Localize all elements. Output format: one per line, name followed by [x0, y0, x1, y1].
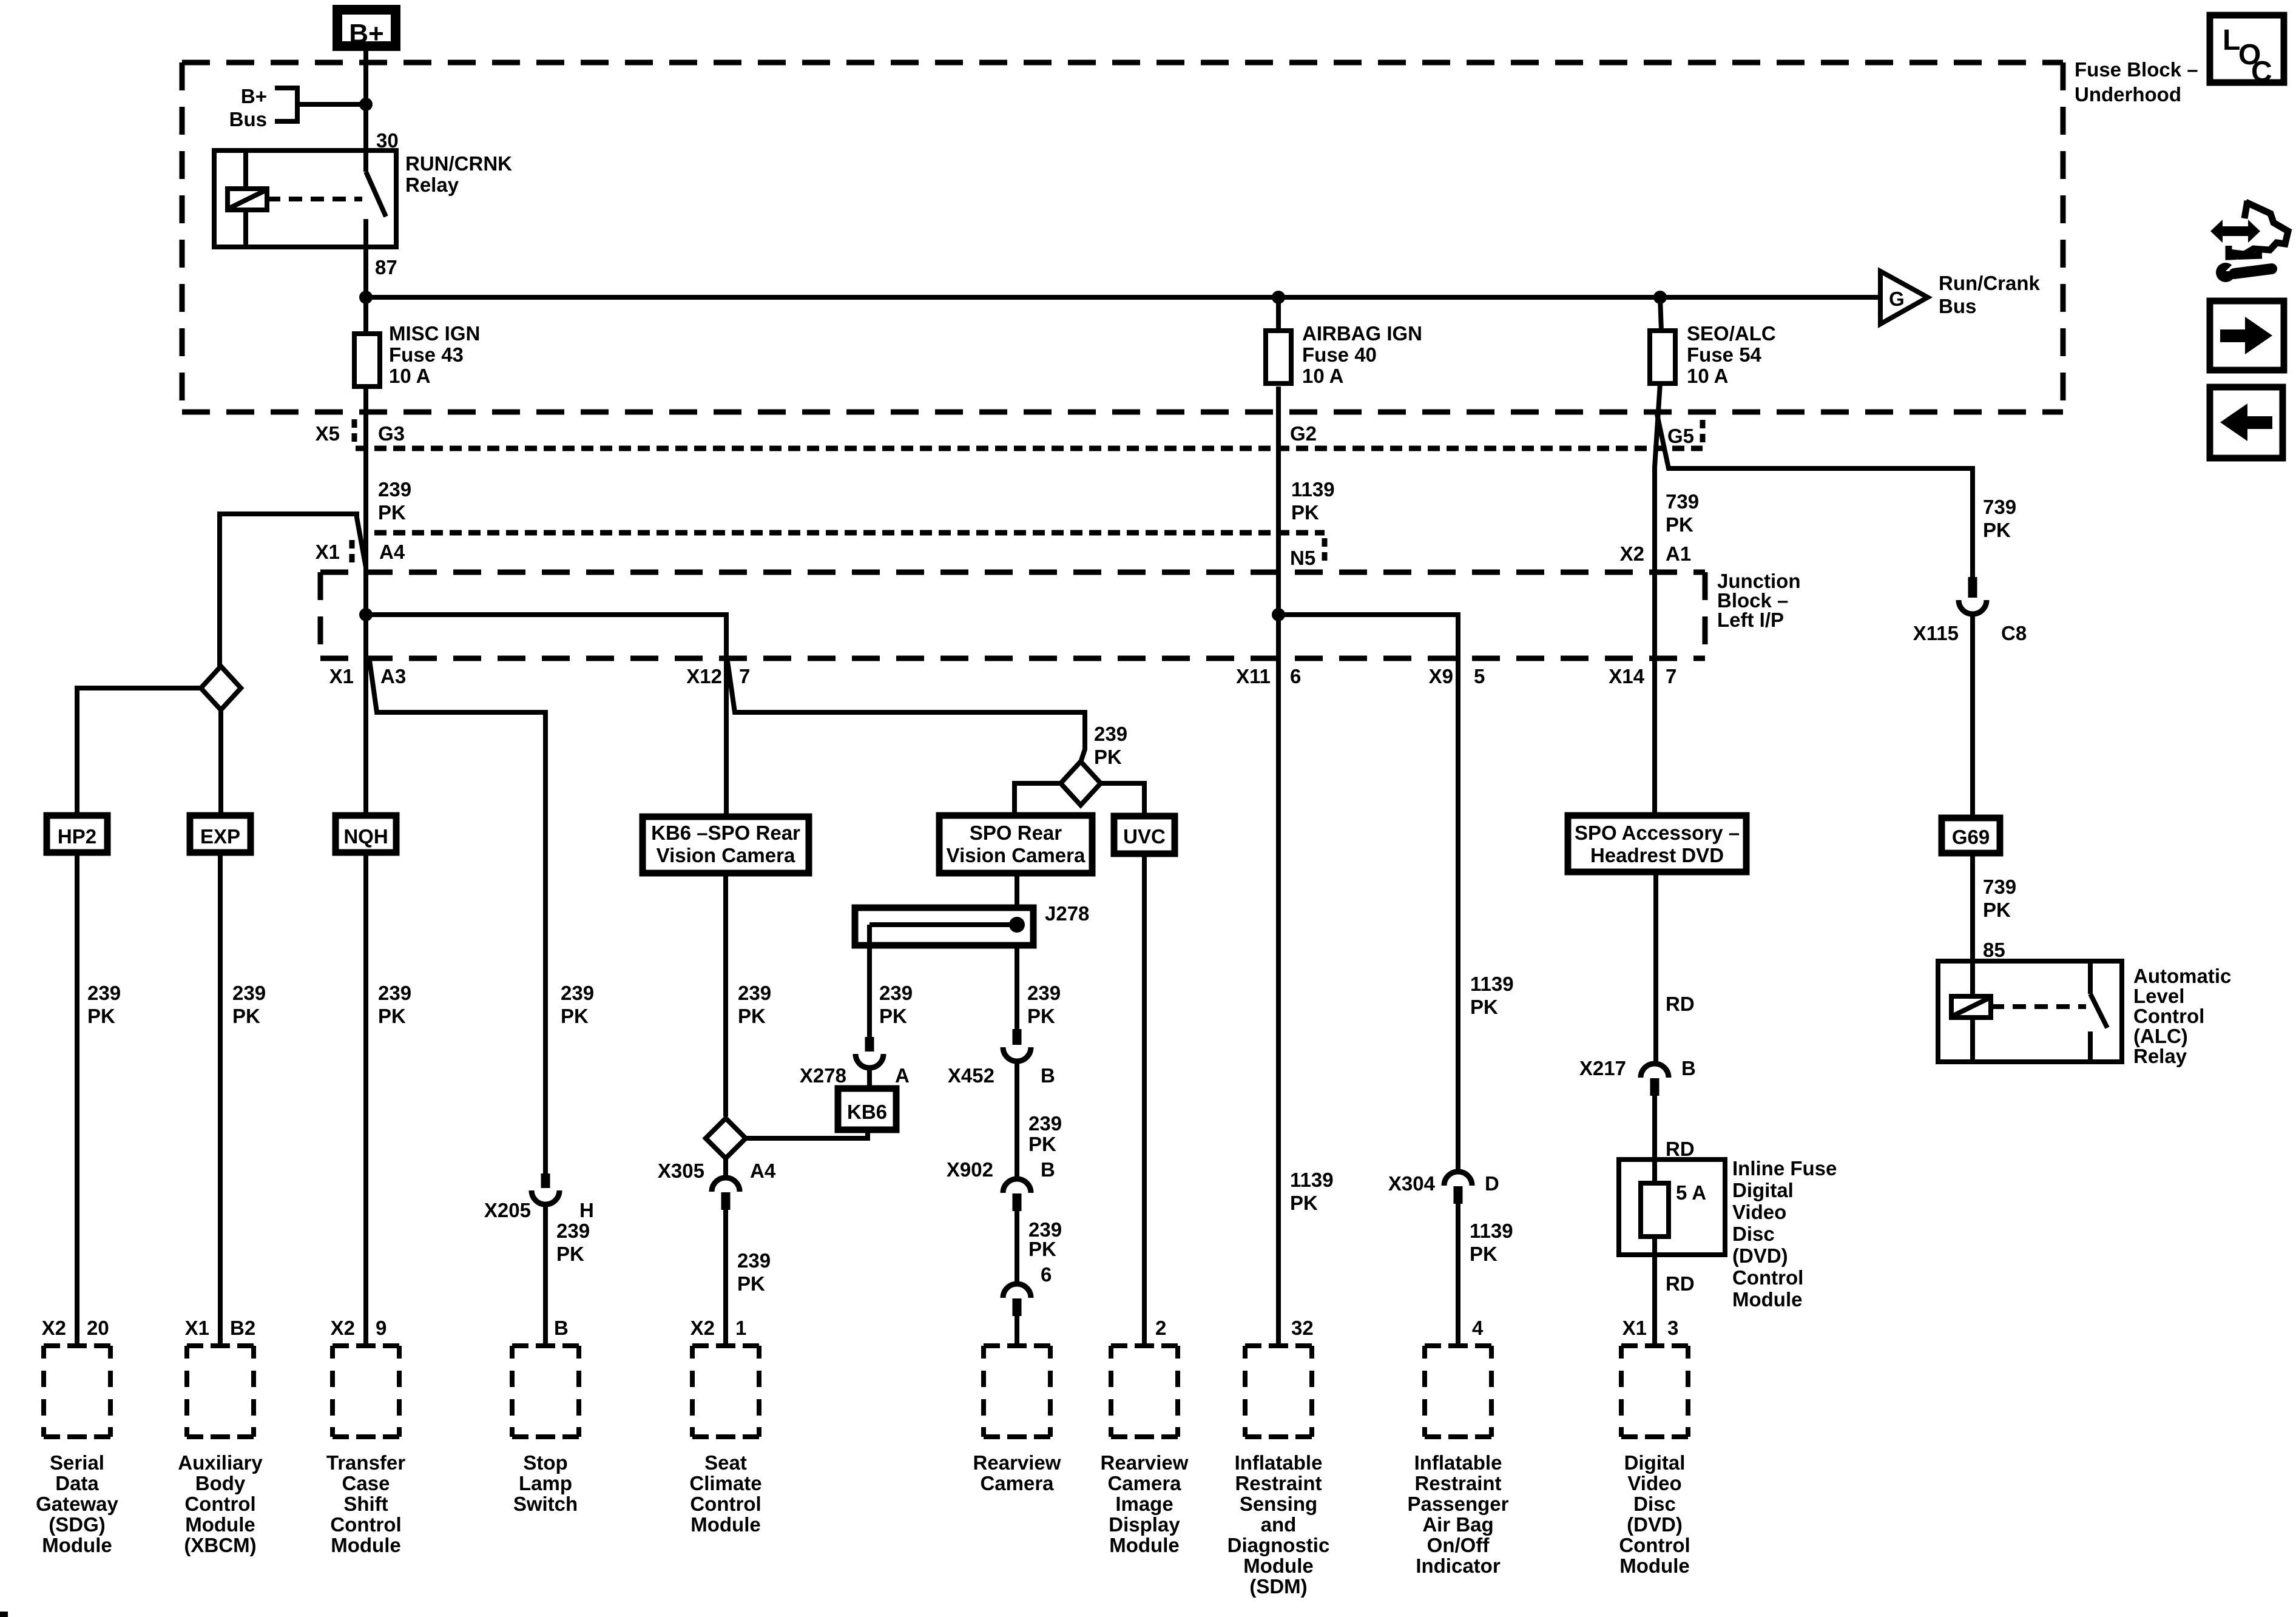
wire label 239 PK (seat lower)	[737, 1249, 771, 1295]
svg-text:Fuse Block –: Fuse Block –	[2075, 58, 2198, 81]
svg-text:Display: Display	[1109, 1513, 1180, 1536]
wire X902 to pin 6 connector	[1015, 1210, 1019, 1284]
wire diamond to HP2	[77, 688, 201, 815]
svg-text:PK: PK	[1028, 1133, 1056, 1155]
svg-text:X1: X1	[185, 1317, 209, 1339]
wire diamond to UVC box	[1101, 783, 1144, 816]
connector X9/5 labels	[1429, 665, 1485, 687]
wire label 739 PK (fuse 54 output)	[1666, 490, 1699, 536]
svg-text:5: 5	[1474, 665, 1485, 687]
option box HP2	[47, 815, 107, 852]
svg-text:Video: Video	[1627, 1472, 1681, 1494]
connector B label (stop lamp)	[554, 1317, 569, 1339]
connector X14/7 labels	[1609, 665, 1676, 687]
svg-text:J278: J278	[1045, 902, 1089, 925]
svg-text:Inflatable: Inflatable	[1414, 1451, 1502, 1474]
svg-text:10 A: 10 A	[389, 365, 430, 387]
svg-text:Passenger: Passenger	[1408, 1493, 1509, 1515]
connector row G3/G2/G5 dotted line	[356, 446, 1703, 451]
svg-text:L: L	[2223, 24, 2240, 56]
svg-text:Restraint: Restraint	[1235, 1472, 1322, 1494]
svg-text:239: 239	[87, 982, 121, 1004]
wire KB6 box to diamond	[723, 873, 728, 1116]
svg-text:Indicator: Indicator	[1416, 1555, 1501, 1577]
wire label 239 PK (fuse 43 output)	[378, 478, 411, 524]
svg-text:PK: PK	[1027, 1005, 1055, 1027]
wire branch X12-7 to rear camera diamond	[728, 661, 1085, 762]
connector X115/C8	[1913, 577, 2027, 644]
svg-text:PK: PK	[879, 1005, 907, 1027]
svg-text:G69: G69	[1952, 826, 1990, 848]
svg-text:SEO/ALC: SEO/ALC	[1687, 322, 1776, 345]
svg-text:G: G	[1889, 288, 1905, 310]
svg-text:PK: PK	[1291, 501, 1319, 524]
svg-text:RD: RD	[1666, 993, 1695, 1015]
wire junction branch to X12-7	[366, 615, 726, 661]
svg-text:Disc: Disc	[1633, 1493, 1676, 1515]
option box NQH	[336, 815, 396, 852]
wire label 239 PK (NQH)	[378, 982, 411, 1027]
svg-text:B+: B+	[349, 19, 383, 49]
svg-text:PK: PK	[232, 1005, 260, 1027]
svg-text:Camera: Camera	[1107, 1472, 1181, 1494]
wire pin 6 to rearview camera module	[1015, 1315, 1019, 1346]
svg-text:KB6: KB6	[847, 1101, 887, 1123]
svg-text:X304: X304	[1388, 1172, 1436, 1195]
svg-text:Module: Module	[331, 1534, 400, 1556]
relay RUN/CRNK - pin 30 label	[376, 129, 399, 152]
wire UVC to rearview image display module	[1142, 854, 1147, 1346]
module Stop Lamp Switch	[512, 1346, 579, 1515]
svg-text:Bus: Bus	[1939, 295, 1976, 317]
svg-text:Module: Module	[1109, 1534, 1179, 1556]
wire diamond to SPO camera box	[1015, 783, 1061, 815]
svg-text:D: D	[1485, 1172, 1499, 1195]
wire label RD (upper)	[1666, 993, 1695, 1015]
svg-text:5 A: 5 A	[1676, 1181, 1706, 1204]
svg-text:X14: X14	[1609, 665, 1644, 687]
option box KB6 - SPO Rear Vision Camera	[643, 817, 809, 873]
connector X1/A4 bracket and labels	[316, 540, 405, 567]
connector X5 bracket and label	[316, 419, 405, 445]
svg-text:239: 239	[378, 478, 411, 501]
svg-text:A4: A4	[750, 1160, 776, 1182]
svg-text:KB6 –SPO Rear: KB6 –SPO Rear	[651, 822, 800, 844]
svg-text:Shift: Shift	[343, 1493, 388, 1515]
svg-text:G5: G5	[1667, 425, 1694, 447]
wire label 239 PK (camera lower)	[1028, 1218, 1062, 1260]
connector X2/1 labels (seat)	[690, 1317, 747, 1339]
svg-text:Video: Video	[1732, 1201, 1786, 1223]
relay ALC - pin 85 label	[1983, 939, 2005, 961]
svg-text:X115: X115	[1913, 622, 1959, 644]
icon LOC box	[2210, 15, 2284, 88]
svg-text:X1: X1	[329, 665, 354, 687]
wire relay 87 to bus	[363, 247, 368, 297]
svg-text:C8: C8	[2001, 622, 2027, 644]
wire X11-6 down to SDM	[1276, 615, 1281, 1346]
module Transfer Case Shift Control	[326, 1317, 405, 1556]
wire label 239 PK (camera mid)	[1028, 1112, 1062, 1155]
svg-text:PK: PK	[1028, 1238, 1056, 1260]
svg-text:6: 6	[1290, 665, 1301, 687]
svg-text:B: B	[554, 1317, 569, 1339]
svg-text:X12: X12	[686, 665, 722, 687]
svg-text:1139: 1139	[1470, 973, 1514, 995]
wire X452 to X902	[1015, 1061, 1019, 1179]
svg-text:7: 7	[1666, 665, 1676, 687]
svg-text:Automatic: Automatic	[2133, 965, 2231, 987]
wire label 239 PK (camera feed)	[1094, 723, 1127, 768]
svg-text:Sensing: Sensing	[1240, 1493, 1317, 1515]
svg-text:X205: X205	[484, 1199, 531, 1221]
svg-text:Module: Module	[42, 1534, 112, 1556]
fuse block underhood dashed boundary	[182, 62, 2063, 412]
svg-text:Seat: Seat	[704, 1451, 747, 1474]
svg-text:Fuse 40: Fuse 40	[1302, 343, 1377, 366]
connector 4 label (indicator)	[1472, 1317, 1484, 1339]
svg-text:Control: Control	[1732, 1266, 1803, 1289]
svg-text:Rearview: Rearview	[1101, 1451, 1189, 1474]
fuse 43 MISC IGN	[354, 297, 480, 387]
wire junction branch to X9-5	[1278, 615, 1458, 661]
wire label 1139 PK (indicator)	[1470, 973, 1514, 1018]
svg-text:B: B	[1681, 1057, 1696, 1079]
svg-text:4: 4	[1472, 1317, 1484, 1339]
connector X1/3 labels (DVD)	[1622, 1317, 1679, 1339]
svg-text:RD: RD	[1666, 1138, 1695, 1160]
svg-text:MISC IGN: MISC IGN	[389, 322, 480, 345]
svg-text:X9: X9	[1429, 665, 1453, 687]
svg-text:Digital: Digital	[1732, 1179, 1794, 1201]
svg-text:PK: PK	[1666, 513, 1693, 536]
svg-text:B: B	[1041, 1158, 1055, 1181]
svg-text:Stop: Stop	[523, 1451, 567, 1474]
svg-text:SPO Accessory –: SPO Accessory –	[1575, 822, 1740, 844]
wire diamond to KB6 jumper	[746, 1130, 868, 1138]
svg-text:Disc: Disc	[1732, 1223, 1775, 1245]
inline fuse label	[1732, 1157, 1837, 1311]
wire label 239 PK (HP2)	[87, 982, 121, 1027]
connector X12/7 labels	[686, 665, 750, 687]
svg-text:1: 1	[735, 1317, 746, 1339]
junction block label	[1717, 570, 1801, 631]
svg-text:Module: Module	[690, 1513, 760, 1536]
svg-text:Headrest DVD: Headrest DVD	[1590, 844, 1724, 866]
connector X452/B	[948, 1029, 1055, 1087]
wire label 239 PK (EXP)	[232, 982, 266, 1027]
node diamond splice (rear vision camera feed)	[1061, 761, 1101, 805]
wire X12-7 down to KB6 SPO box	[724, 661, 729, 817]
svg-text:239: 239	[737, 1249, 771, 1272]
svg-text:X305: X305	[658, 1160, 704, 1182]
connector X11/6 labels	[1236, 665, 1301, 687]
svg-text:PK: PK	[87, 1005, 115, 1027]
wire branch X1-A3 to stop lamp switch	[369, 656, 545, 1173]
svg-text:Inline Fuse: Inline Fuse	[1732, 1157, 1837, 1180]
wire label 739 PK (G69 out)	[1983, 876, 2016, 921]
svg-text:239: 239	[561, 982, 594, 1004]
relay RUN/CRNK - name	[405, 152, 512, 196]
module Rearview Camera	[973, 1346, 1061, 1494]
wire X9-5 down to X304	[1456, 661, 1460, 1172]
svg-text:Diagnostic: Diagnostic	[1227, 1534, 1330, 1556]
svg-text:RD: RD	[1666, 1272, 1695, 1295]
power feed B+ terminal	[337, 10, 396, 49]
svg-text:PK: PK	[1470, 996, 1498, 1018]
module Auxiliary Body Control	[178, 1317, 263, 1556]
svg-text:Image: Image	[1115, 1493, 1173, 1515]
page corner mark	[0, 1612, 8, 1617]
wire Run/Crank Bus	[359, 291, 1880, 304]
svg-text:10 A: 10 A	[1302, 365, 1343, 387]
connector X2/A1 labels	[1620, 542, 1692, 565]
module Inflatable Restraint SDM	[1227, 1346, 1330, 1598]
svg-text:Data: Data	[55, 1472, 99, 1494]
svg-text:1139: 1139	[1291, 478, 1335, 501]
option box KB6 small	[838, 1089, 896, 1130]
svg-text:(XBCM): (XBCM)	[184, 1534, 256, 1556]
relay RUN/CRNK - actuating dash link	[267, 197, 362, 201]
module Air Bag On/Off Indicator	[1408, 1346, 1509, 1577]
svg-text:Control: Control	[330, 1513, 401, 1536]
svg-text:239: 239	[556, 1220, 590, 1242]
svg-text:PK: PK	[378, 1005, 406, 1027]
svg-text:85: 85	[1983, 939, 2005, 961]
wire label 1139 PK (SDM)	[1290, 1169, 1334, 1214]
svg-text:Rearview: Rearview	[973, 1451, 1061, 1474]
module DVD Control	[1619, 1346, 1690, 1577]
wire inline fuse to DVD module	[1652, 1237, 1657, 1346]
svg-text:Gateway: Gateway	[36, 1493, 118, 1515]
module Rearview Camera Image Display	[1101, 1346, 1189, 1556]
node junction dot A (fuse 43 net)	[359, 608, 373, 621]
svg-text:X2: X2	[42, 1317, 66, 1339]
wire HP2 to SDG module	[75, 852, 79, 1346]
wire EXP to XBCM module	[218, 852, 223, 1346]
svg-text:Level: Level	[2133, 985, 2184, 1007]
relay ALC - coil	[1951, 961, 1991, 1062]
splice pack J278	[855, 902, 1089, 945]
relay RUN/CRNK - body	[214, 150, 396, 247]
wire SPO accessory box to X217	[1653, 872, 1658, 1064]
svg-text:32: 32	[1291, 1317, 1314, 1339]
svg-text:(DVD): (DVD)	[1732, 1244, 1788, 1267]
svg-text:10 A: 10 A	[1687, 365, 1728, 387]
svg-text:Relay: Relay	[2133, 1045, 2187, 1067]
wire G69 to ALC relay	[1970, 853, 1975, 961]
svg-text:PK: PK	[738, 1005, 766, 1027]
wire J278 left leg to X278	[867, 945, 872, 1037]
connector row X1-A4/N5 dotted line	[374, 530, 1325, 536]
svg-text:9: 9	[376, 1317, 387, 1339]
svg-text:PK: PK	[378, 501, 406, 524]
relay RUN/CRNK - switch	[366, 150, 386, 247]
connector X205/H	[484, 1173, 594, 1221]
wire X217 to inline fuse	[1652, 1086, 1657, 1183]
svg-text:Control: Control	[1619, 1534, 1690, 1556]
svg-text:239: 239	[1028, 1112, 1062, 1135]
svg-text:(DVD): (DVD)	[1627, 1513, 1683, 1536]
svg-text:N5: N5	[1290, 547, 1315, 569]
node G arrow Run/Crank Bus	[1880, 271, 2041, 324]
svg-text:739: 739	[1666, 490, 1699, 513]
svg-text:Auxiliary: Auxiliary	[178, 1451, 263, 1474]
svg-text:UVC: UVC	[1123, 825, 1166, 848]
junction block left I/P dashed boundary	[320, 572, 1705, 658]
svg-text:1139: 1139	[1290, 1169, 1334, 1191]
wire fuse 43 to junction block	[363, 387, 368, 615]
svg-text:239: 239	[232, 982, 266, 1004]
wire X278 to KB6 box	[867, 1067, 872, 1089]
svg-text:C: C	[2251, 56, 2272, 88]
svg-text:Underhood: Underhood	[2075, 83, 2181, 106]
svg-text:Body: Body	[195, 1472, 246, 1494]
connector G2 label	[1290, 422, 1317, 445]
svg-text:SPO Rear: SPO Rear	[970, 822, 1062, 844]
wire NQH to transfer case module	[363, 852, 368, 1346]
svg-text:PK: PK	[1983, 899, 2011, 921]
relay RUN/CRNK - pin 87 label	[375, 256, 397, 279]
svg-text:PK: PK	[556, 1243, 584, 1265]
connector X1/A3 labels	[329, 665, 407, 687]
connector X217/B	[1579, 1057, 1696, 1096]
svg-text:Control: Control	[2133, 1005, 2204, 1027]
wire label 1139 PK (indicator lower)	[1470, 1220, 1513, 1265]
svg-text:X278: X278	[800, 1064, 846, 1087]
svg-text:PK: PK	[1290, 1192, 1318, 1214]
relay ALC - name	[2133, 965, 2231, 1067]
svg-text:Inflatable: Inflatable	[1235, 1451, 1323, 1474]
svg-text:X2: X2	[690, 1317, 715, 1339]
svg-text:Control: Control	[690, 1493, 761, 1515]
icon right arrow box	[2210, 301, 2284, 370]
svg-text:Relay: Relay	[405, 174, 459, 196]
node junction dot B (fuse 40 net)	[1272, 608, 1285, 621]
svg-text:G2: G2	[1290, 422, 1317, 445]
svg-text:Vision Camera: Vision Camera	[947, 844, 1086, 866]
svg-text:Module: Module	[185, 1513, 255, 1536]
connector G5 bracket and label	[1667, 420, 1703, 447]
svg-text:(SDM): (SDM)	[1249, 1575, 1307, 1598]
svg-text:Vision Camera: Vision Camera	[657, 844, 795, 866]
connector X305/A4	[658, 1158, 776, 1210]
svg-text:X2: X2	[1620, 542, 1644, 565]
relay RUN/CRNK - coil	[228, 150, 267, 247]
svg-text:On/Off: On/Off	[1427, 1534, 1490, 1556]
svg-text:HP2: HP2	[58, 825, 96, 848]
svg-text:X1: X1	[1622, 1317, 1647, 1339]
svg-text:(SDG): (SDG)	[49, 1513, 106, 1536]
svg-text:EXP: EXP	[200, 825, 240, 848]
svg-text:PK: PK	[561, 1005, 589, 1027]
svg-text:G3: G3	[378, 422, 405, 445]
svg-text:RUN/CRNK: RUN/CRNK	[405, 152, 512, 175]
svg-text:Left I/P: Left I/P	[1717, 609, 1784, 631]
wire X305 to seat module	[723, 1200, 728, 1346]
wire branch to HP2/EXP diamond	[220, 514, 366, 668]
icon vehicle data arrow with wrench	[2210, 201, 2288, 282]
svg-text:B2: B2	[230, 1317, 255, 1339]
wire B+ to relay pin 30	[363, 51, 368, 150]
wire X14-7 down (already drawn segment)	[1652, 658, 1657, 815]
svg-text:B: B	[1041, 1064, 1055, 1087]
svg-text:739: 739	[1983, 496, 2016, 518]
wire X205 to stop lamp switch	[543, 1204, 548, 1346]
svg-text:239: 239	[1027, 982, 1061, 1004]
option box UVC	[1114, 816, 1175, 854]
wire diamond to EXP	[218, 710, 223, 815]
option box SPO Rear Vision Camera	[939, 815, 1092, 873]
svg-text:A: A	[895, 1064, 910, 1087]
svg-text:A1: A1	[1666, 542, 1691, 565]
svg-text:(ALC): (ALC)	[2133, 1025, 2188, 1047]
connector pin 6	[1003, 1263, 1052, 1316]
svg-text:PK: PK	[737, 1272, 765, 1295]
svg-text:239: 239	[1094, 723, 1127, 745]
wire branch 739 PK to X115	[1657, 414, 1973, 577]
svg-text:X1: X1	[316, 541, 340, 563]
node diamond splice (HP2/EXP)	[201, 666, 241, 710]
wire fuse 40 to junction block	[1276, 387, 1281, 615]
svg-text:H: H	[579, 1199, 594, 1221]
svg-text:Restraint: Restraint	[1414, 1472, 1501, 1494]
relay ALC - switch	[2090, 961, 2107, 1062]
svg-text:Camera: Camera	[980, 1472, 1054, 1494]
fuse 54 SEO/ALC	[1650, 297, 1776, 387]
svg-text:A3: A3	[380, 665, 406, 687]
svg-text:B+: B+	[241, 85, 267, 107]
svg-text:X452: X452	[948, 1064, 994, 1087]
svg-text:Control: Control	[184, 1493, 255, 1515]
wire label 239 PK (camera leg)	[1027, 982, 1061, 1027]
connector X278/A	[800, 1037, 910, 1087]
option box SPO Accessory - Headrest DVD	[1568, 815, 1746, 872]
option box EXP	[190, 815, 251, 852]
svg-text:Bus: Bus	[229, 108, 267, 130]
svg-text:6: 6	[1041, 1263, 1052, 1286]
wire J278 right leg to X452	[1015, 945, 1019, 1029]
connector X304/D	[1388, 1172, 1499, 1204]
svg-text:PK: PK	[1983, 519, 2011, 541]
svg-text:Fuse 54: Fuse 54	[1687, 343, 1762, 366]
svg-text:Serial: Serial	[50, 1451, 104, 1474]
svg-text:Module: Module	[1619, 1555, 1689, 1577]
svg-text:7: 7	[739, 665, 750, 687]
wire label 239 PK (seat climate)	[738, 982, 771, 1027]
module Seat Climate Control	[689, 1346, 761, 1536]
svg-text:87: 87	[375, 256, 397, 279]
svg-text:X2: X2	[331, 1317, 355, 1339]
svg-text:3: 3	[1667, 1317, 1678, 1339]
svg-text:PK: PK	[1094, 746, 1122, 768]
svg-text:Air Bag: Air Bag	[1422, 1513, 1493, 1536]
wire label RD (lower)	[1666, 1272, 1695, 1295]
fuse block underhood label	[2075, 58, 2198, 106]
svg-text:Digital: Digital	[1624, 1451, 1686, 1474]
connector N5 bracket and label	[1290, 538, 1325, 569]
connector X902/B	[947, 1158, 1055, 1211]
wire label 239 PK (stop lamp)	[561, 982, 594, 1027]
svg-text:X5: X5	[316, 422, 340, 445]
svg-text:Transfer: Transfer	[326, 1451, 405, 1474]
svg-text:Fuse 43: Fuse 43	[389, 343, 464, 366]
svg-text:739: 739	[1983, 876, 2016, 898]
wire label 1139 PK (fuse 40 output)	[1291, 478, 1335, 524]
svg-text:1139: 1139	[1470, 1220, 1513, 1242]
svg-text:X902: X902	[947, 1158, 993, 1181]
module Serial Data Gateway	[36, 1317, 118, 1556]
